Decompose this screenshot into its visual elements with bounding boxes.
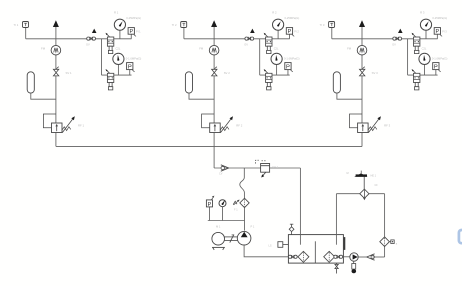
svg-text:HE 1: HE 1 — [371, 174, 377, 177]
pressure filter F1 — [240, 198, 249, 207]
svg-text:RF 2: RF 2 — [236, 124, 243, 128]
wire pump pressure line — [214, 167, 300, 169]
partial blue icon at right edge — [459, 230, 462, 243]
oil tank T1 — [288, 235, 343, 264]
isolation valve V2A — [264, 33, 272, 54]
temperature sensor TI1 — [23, 22, 29, 39]
svg-text:M 1: M 1 — [216, 225, 221, 229]
shut-off valve GV2 — [245, 37, 254, 40]
pressure switch PS3A — [434, 28, 442, 39]
svg-text:GV: GV — [244, 43, 248, 47]
wire top header circuit 1 — [26, 38, 132, 40]
relief valve RF2 — [202, 114, 233, 133]
port arrow circuit 2 — [250, 29, 255, 33]
svg-text:P: P — [288, 29, 292, 35]
svg-text:P: P — [128, 64, 132, 70]
flow meter FM3 — [357, 45, 367, 55]
wire main riser circuit 2 — [213, 39, 215, 147]
svg-text:PI 3: PI 3 — [442, 29, 447, 33]
svg-text:P: P — [286, 64, 290, 70]
flow meter FM1 — [51, 45, 61, 55]
wire main riser circuit 3 — [361, 39, 363, 147]
port arrow circuit 3 — [398, 29, 403, 33]
relief valve RF1 — [43, 114, 74, 133]
svg-text:PI 2: PI 2 — [294, 29, 299, 33]
svg-text:R 1: R 1 — [114, 10, 119, 14]
main pump P1 — [237, 231, 251, 245]
svg-text:0-1.6MPa(G): 0-1.6MPa(G) — [126, 56, 142, 60]
wire cooling loop right leg — [384, 246, 386, 257]
tank baffle — [314, 241, 316, 263]
sampling valve SV1 — [53, 67, 58, 76]
svg-text:RF 3: RF 3 — [384, 124, 391, 128]
air breather B1 — [289, 224, 294, 234]
suction strainer ST1 — [298, 251, 309, 262]
cooler fan — [354, 171, 367, 190]
suction strainer ST2 — [324, 251, 335, 262]
vent arrow circuit 2 — [211, 20, 217, 39]
wire pump discharge — [244, 208, 246, 231]
vent arrow circuit 3 — [359, 20, 365, 39]
svg-text:C2L: C2L — [116, 47, 121, 51]
wire main riser circuit 1 — [55, 39, 57, 147]
svg-text:CF: CF — [375, 184, 379, 187]
pump pressure gauge — [219, 200, 226, 221]
wire cooling loop left leg — [335, 194, 337, 235]
svg-text:M: M — [347, 172, 349, 175]
svg-text:TI 1: TI 1 — [14, 23, 19, 27]
circulation pump P2 — [343, 253, 358, 261]
port arrow circuit 1 — [92, 29, 97, 33]
shut-off valve GV1 — [87, 37, 96, 40]
svg-text:C2L: C2L — [274, 47, 279, 51]
circulation pump motor — [352, 261, 357, 273]
svg-text:a: a — [396, 242, 398, 245]
oil cooler HE1 — [360, 189, 369, 200]
svg-text:RF 1: RF 1 — [78, 124, 85, 128]
svg-text:GV: GV — [392, 43, 396, 47]
suction shut-off valve — [288, 255, 297, 258]
svg-text:GV: GV — [86, 43, 90, 47]
pressure gauge PI2B — [271, 53, 282, 75]
svg-text:F 1: F 1 — [234, 209, 238, 212]
pressure gauge PI2A — [273, 19, 284, 39]
pressure switch PS1B — [127, 63, 135, 76]
pressure switch PS2A — [286, 28, 294, 39]
pressure gauge PI1B — [113, 53, 124, 75]
wire top header circuit 3 — [332, 38, 438, 40]
svg-text:P: P — [434, 64, 438, 70]
wire top header circuit 2 — [184, 38, 290, 40]
pressure gauge PI1A — [114, 19, 125, 39]
svg-text:P 1: P 1 — [251, 225, 255, 229]
electric motor M1 — [212, 232, 225, 250]
svg-text:SV 3: SV 3 — [372, 71, 379, 75]
svg-text:CV: CV — [219, 173, 223, 176]
shut-off valve GV3 — [393, 37, 402, 40]
wire lower gauge line circuit 3 — [408, 74, 438, 76]
svg-text:FM: FM — [347, 46, 352, 50]
vent arrow circuit 1 — [53, 20, 59, 39]
svg-text:SV 1: SV 1 — [66, 71, 73, 75]
unloading valve UV1 — [256, 160, 270, 177]
svg-text:FM: FM — [199, 46, 204, 50]
svg-text:0-25MPa(G): 0-25MPa(G) — [126, 16, 141, 20]
svg-text:P: P — [436, 29, 440, 35]
isolation valve V1B — [106, 69, 114, 90]
circulation suction valve — [334, 255, 343, 258]
sampling valve SV3 — [360, 67, 365, 76]
svg-text:FM: FM — [41, 46, 46, 50]
accumulator AC3 — [333, 72, 362, 99]
temperature sensor TI3 — [329, 22, 335, 39]
wire cooler supply pipe inside tank — [335, 235, 337, 245]
svg-text:PI 1: PI 1 — [136, 29, 141, 33]
clogging indicator — [389, 240, 394, 244]
svg-text:TI 2: TI 2 — [172, 23, 177, 27]
pressure gauge PI3B — [419, 53, 430, 75]
filter bypass indicator — [233, 200, 239, 205]
tank drain valve — [335, 263, 338, 273]
shaft coupling — [224, 235, 237, 243]
isolation valve V3A — [412, 33, 420, 54]
return filter F2 — [380, 237, 390, 247]
pressure switch PS4 — [206, 196, 214, 221]
svg-text:TI 3: TI 3 — [320, 23, 325, 27]
wire return header — [56, 145, 362, 147]
svg-text:P: P — [129, 29, 133, 35]
svg-text:UV 1: UV 1 — [272, 165, 278, 169]
accumulator AC2 — [185, 72, 214, 99]
wire lower gauge line circuit 2 — [260, 74, 290, 76]
flow meter FM2 — [209, 45, 219, 55]
wire drop to pump line — [213, 146, 215, 168]
flexible hose — [240, 168, 245, 198]
svg-text:0-1.6MPa(G): 0-1.6MPa(G) — [284, 56, 300, 60]
temperature sensor TI2 — [181, 22, 187, 39]
sampling valve SV2 — [212, 67, 217, 76]
isolation valve V2B — [264, 69, 272, 90]
svg-text:R 2: R 2 — [272, 10, 277, 14]
wire gauge branch riser circuit 2 — [259, 39, 261, 75]
wire pump suction — [244, 245, 290, 257]
relief valve RF3 — [350, 114, 381, 133]
pressure gauge PI3A — [420, 19, 431, 39]
accumulator AC1 — [27, 72, 56, 99]
svg-text:P: P — [208, 202, 212, 208]
oil level gauge LG1 — [344, 237, 346, 250]
pressure switch PS3B — [433, 63, 441, 76]
svg-text:0-25MPa(G): 0-25MPa(G) — [432, 16, 447, 20]
wire gauge branch riser circuit 1 — [101, 39, 103, 75]
isolation valve V3B — [412, 69, 420, 90]
svg-text:0-25MPa(G): 0-25MPa(G) — [285, 16, 300, 20]
wire cooling loop bottom — [373, 256, 385, 258]
wire cooling loop riser — [384, 194, 386, 237]
svg-text:SV 2: SV 2 — [224, 71, 231, 75]
wire cooling loop top — [336, 193, 384, 195]
wire gauge manifold line — [208, 220, 245, 222]
svg-text:LS: LS — [269, 245, 272, 248]
isolation valve V1A — [106, 33, 114, 54]
wire lower gauge line circuit 1 — [102, 74, 132, 76]
pressure switch PS1A — [128, 28, 136, 39]
svg-text:C2L: C2L — [422, 47, 427, 51]
check valve CV2 — [358, 256, 366, 258]
level switch LS1 — [278, 242, 289, 248]
check valve CV1 — [221, 165, 229, 171]
wire tank return pipe — [299, 168, 301, 245]
svg-text:R 3: R 3 — [420, 10, 425, 14]
pressure switch PS2B — [285, 63, 293, 76]
svg-text:0-1.6MPa(G): 0-1.6MPa(G) — [432, 56, 448, 60]
wire gauge branch riser circuit 3 — [407, 39, 409, 75]
